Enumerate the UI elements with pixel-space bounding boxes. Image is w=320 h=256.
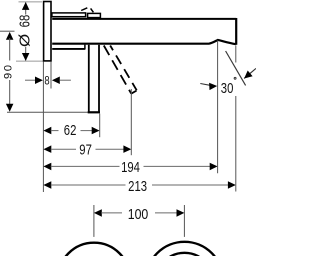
svg-text:Ø: Ø [18,34,34,47]
svg-text:97: 97 [79,141,92,158]
svg-text:30: 30 [221,80,234,97]
svg-text:68: 68 [16,15,33,28]
svg-text:100: 100 [128,206,149,222]
svg-text:213: 213 [128,178,147,195]
svg-text:194: 194 [121,159,140,176]
svg-text:62: 62 [64,122,77,139]
svg-text:90: 90 [3,63,15,79]
svg-text:8: 8 [44,74,49,87]
